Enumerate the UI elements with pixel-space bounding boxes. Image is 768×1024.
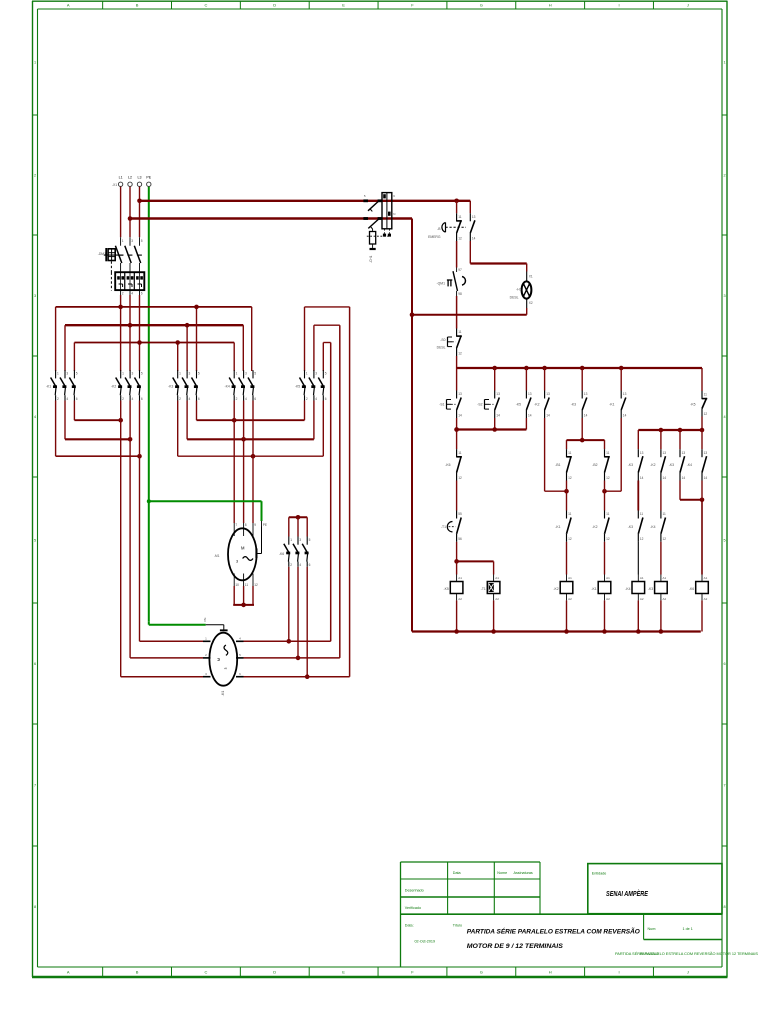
- svg-text:-K5: -K5: [444, 587, 449, 591]
- svg-text:Num:: Num:: [648, 927, 657, 931]
- svg-text:1: 1: [290, 538, 292, 542]
- coil -K5: [444, 575, 463, 601]
- svg-text:98: 98: [458, 292, 462, 296]
- thermal overload relay -FT (part of -DM1): [111, 272, 144, 295]
- svg-text:6: 6: [141, 397, 143, 401]
- svg-text:H: H: [549, 3, 552, 8]
- wire L3 drop to -DM1: [139, 187, 141, 238]
- svg-text:-K1: -K1: [609, 403, 614, 407]
- svg-text:1: 1: [306, 372, 308, 376]
- wire K4.4 to motor pin8: [243, 401, 245, 524]
- wire green PE to motor2: [148, 621, 150, 624]
- wire bus1 to K4 pin5: [251, 307, 253, 371]
- svg-text:1: 1: [122, 239, 124, 243]
- svg-text:-K3: -K3: [648, 587, 653, 591]
- wire K1.4 to K2.4: [64, 401, 66, 440]
- svg-text:11: 11: [568, 512, 572, 516]
- svg-text:55: 55: [458, 512, 462, 516]
- svg-text:Data: Data: [453, 871, 462, 875]
- svg-text:-K3: -K3: [168, 384, 173, 388]
- svg-text:A2: A2: [606, 597, 610, 601]
- svg-text:2: 2: [290, 563, 292, 567]
- wire bus1 to K1 pin1: [55, 307, 57, 371]
- svg-text:4: 4: [315, 397, 317, 401]
- svg-text:11: 11: [704, 393, 708, 397]
- wire phase bus 3: [74, 342, 234, 344]
- svg-text:-K1: -K1: [591, 587, 596, 591]
- wire K4.2 to motor pin7: [233, 401, 235, 524]
- svg-text:5: 5: [34, 539, 36, 543]
- svg-text:6: 6: [309, 563, 311, 567]
- aux contact -K6 NC 11-12: [445, 427, 462, 480]
- svg-text:13: 13: [458, 392, 462, 396]
- svg-text:1: 1: [57, 372, 59, 376]
- svg-text:E: E: [342, 3, 345, 8]
- svg-text:-K2: -K2: [592, 525, 597, 529]
- svg-text:3: 3: [189, 372, 191, 376]
- svg-text:13: 13: [682, 451, 686, 455]
- svg-text:5: 5: [325, 372, 327, 376]
- svg-text:-QM1: -QM1: [437, 282, 446, 286]
- svg-text:6: 6: [254, 397, 256, 401]
- svg-text:-M1: -M1: [221, 691, 225, 697]
- svg-text:14: 14: [472, 236, 476, 240]
- svg-text:-K3: -K3: [628, 525, 633, 529]
- svg-text:PARALELO: PARALELO: [640, 952, 659, 956]
- svg-text:12: 12: [606, 476, 610, 480]
- wire bus3 to K1 pin5: [73, 343, 75, 372]
- aux contact -K3 11-12 (row2): [628, 511, 644, 542]
- svg-text:6: 6: [76, 397, 78, 401]
- svg-text:N: N: [393, 212, 395, 216]
- svg-text:H: H: [549, 970, 552, 975]
- svg-text:13: 13: [528, 392, 532, 396]
- emergency stop NO contact 13-14: [470, 213, 475, 241]
- wire K4.6 to motor pin9: [252, 401, 254, 524]
- svg-text:4: 4: [66, 397, 68, 401]
- contactor -K1 power contacts: [46, 370, 78, 401]
- svg-text:M: M: [241, 546, 245, 551]
- wire busA drops: [456, 368, 458, 391]
- svg-text:11: 11: [606, 512, 610, 516]
- aux contact -B2 11-12: [592, 449, 610, 480]
- aux contact -K4 11-12 (row2): [650, 511, 666, 542]
- svg-text:14: 14: [623, 413, 627, 417]
- wire L2 to bus2 and K2: [129, 295, 131, 371]
- svg-text:I: I: [618, 3, 619, 8]
- node bus A junction: [524, 366, 529, 371]
- svg-text:6: 6: [141, 292, 143, 296]
- svg-text:A2: A2: [663, 597, 667, 601]
- svg-text:3: 3: [245, 372, 247, 376]
- svg-text:3: 3: [131, 239, 133, 243]
- svg-text:X1: X1: [529, 275, 533, 279]
- svg-text:7: 7: [235, 523, 237, 527]
- coil -K3: [648, 575, 667, 601]
- wire K3.2 K4.6 K5.6 link: [177, 401, 179, 457]
- svg-text:3: 3: [66, 372, 68, 376]
- wire K1aux cross link: [620, 418, 622, 491]
- svg-text:4: 4: [189, 397, 191, 401]
- wire emerg NC to QM1 aux: [456, 241, 458, 268]
- wire K5NC to right bus: [701, 417, 703, 431]
- svg-text:-K5: -K5: [690, 403, 695, 407]
- svg-text:9: 9: [254, 523, 256, 527]
- svg-text:B: B: [136, 970, 139, 975]
- wire phase bus 1: [56, 306, 252, 308]
- wire K2r to row2: [660, 481, 662, 511]
- svg-text:1: 1: [236, 372, 238, 376]
- wire L1 to bus1 and K2: [120, 295, 122, 371]
- node L3 tap: [137, 199, 142, 204]
- node control feed: [454, 199, 459, 204]
- svg-text:A: A: [67, 970, 70, 975]
- wire phase bus 2: [65, 324, 243, 326]
- svg-text:C: C: [204, 970, 207, 975]
- wire K1.2 to K2.6: [55, 401, 57, 457]
- svg-text:4: 4: [724, 415, 726, 419]
- svg-text:13: 13: [496, 392, 500, 396]
- svg-text:A1: A1: [704, 576, 708, 580]
- wire star jumper motor1: [233, 586, 235, 605]
- svg-text:14: 14: [704, 476, 708, 480]
- svg-text:PE: PE: [203, 617, 207, 621]
- svg-text:PE: PE: [146, 176, 151, 180]
- svg-text:02-Oct-2019: 02-Oct-2019: [415, 939, 436, 943]
- svg-text:2: 2: [179, 397, 181, 401]
- svg-text:14: 14: [663, 476, 667, 480]
- svg-text:A2: A2: [704, 597, 708, 601]
- aux contact -K1 13-14: [609, 391, 626, 419]
- svg-text:13: 13: [704, 451, 708, 455]
- svg-text:J: J: [687, 3, 689, 8]
- svg-text:A2: A2: [495, 597, 499, 601]
- svg-text:-K5: -K5: [295, 384, 300, 388]
- svg-text:-S0: -S0: [440, 338, 445, 342]
- svg-text:3: 3: [132, 372, 134, 376]
- coil -K6: [689, 575, 708, 601]
- svg-text:PARTIDA SÉRIE PARALELO ESTRELA: PARTIDA SÉRIE PARALELO ESTRELA COM REVER…: [615, 951, 759, 956]
- aux contact -K1 11-12 (row2): [555, 511, 572, 542]
- wire bus2 to K3 pin3: [186, 325, 188, 371]
- pushbutton -S1 NO 13-14: [439, 391, 462, 419]
- aux contact -K4 13-14: [687, 449, 708, 480]
- svg-text:11: 11: [663, 512, 667, 516]
- svg-text:14: 14: [640, 476, 644, 480]
- svg-text:D: D: [273, 3, 276, 8]
- node L2 tap: [128, 216, 133, 221]
- svg-text:J: J: [687, 970, 689, 975]
- svg-text:A2: A2: [458, 597, 462, 601]
- svg-text:8: 8: [724, 905, 726, 909]
- svg-text:A1: A1: [458, 576, 462, 580]
- node bus A junction: [492, 366, 497, 371]
- svg-text:14: 14: [584, 413, 588, 417]
- svg-text:Nome: Nome: [497, 871, 507, 875]
- svg-text:-X1: -X1: [112, 183, 117, 187]
- svg-text:12: 12: [458, 351, 462, 355]
- svg-text:-B1: -B1: [555, 463, 560, 467]
- wire lamp return to rail: [526, 308, 528, 315]
- svg-text:5: 5: [254, 372, 256, 376]
- svg-text:12: 12: [458, 476, 462, 480]
- svg-text:-K2: -K2: [534, 403, 539, 407]
- svg-text:14: 14: [458, 413, 462, 417]
- coil -K2: [553, 575, 572, 601]
- svg-text:1: 1: [724, 61, 726, 65]
- wire K3aux to U-link: [581, 418, 583, 440]
- svg-text:B: B: [136, 3, 139, 8]
- svg-text:2: 2: [306, 397, 308, 401]
- node bus A junction: [542, 366, 547, 371]
- wire K2.2 drop to motor2: [120, 401, 122, 677]
- svg-text:12: 12: [458, 236, 462, 240]
- wire K2.6 drop to motor2: [139, 401, 141, 642]
- svg-text:-T1: -T1: [441, 525, 446, 529]
- svg-text:13: 13: [640, 451, 644, 455]
- aux contact -K2 13-14: [534, 391, 550, 419]
- contactor -K3 power contacts: [168, 370, 200, 401]
- svg-text:6: 6: [198, 397, 200, 401]
- wire K6.2 drop: [288, 567, 290, 642]
- svg-text:1: 1: [122, 372, 124, 376]
- svg-text:A: A: [67, 3, 70, 8]
- aux contact -K2 11-12 (row2): [592, 511, 610, 542]
- coil -T1 timer: [481, 575, 500, 601]
- wire right bus drops row1: [637, 430, 639, 449]
- svg-text:3: 3: [315, 372, 317, 376]
- wire right feed bus: [638, 429, 702, 431]
- wire L2 drop to -DM1: [129, 187, 131, 238]
- node bus A junction: [619, 366, 624, 371]
- wire U-link B1 B2: [567, 439, 605, 441]
- svg-text:5: 5: [141, 372, 143, 376]
- wire L3 to bus3 and K2: [139, 295, 141, 371]
- svg-text:G: G: [480, 970, 483, 975]
- svg-text:-K6: -K6: [689, 587, 694, 591]
- aux contact -K3b 13-14: [669, 449, 686, 480]
- wire motor2 left pin3: [121, 676, 203, 678]
- svg-text:-K3: -K3: [628, 463, 633, 467]
- svg-text:12: 12: [254, 583, 258, 587]
- wire K3.4 K4.4 K5.4 link: [186, 401, 188, 440]
- node bus A junction: [580, 366, 585, 371]
- svg-text:11: 11: [458, 330, 462, 334]
- svg-text:2: 2: [122, 292, 124, 296]
- wire emerg NO to lamp: [469, 241, 471, 264]
- svg-text:4: 4: [34, 415, 36, 419]
- svg-text:5: 5: [309, 538, 311, 542]
- wire K5 pin3 loop: [313, 325, 315, 371]
- wire coils to bottom bus: [456, 600, 458, 631]
- svg-text:1 de 1: 1 de 1: [683, 927, 693, 931]
- svg-text:MOTOR DE 9 / 12 TERMINAIS: MOTOR DE 9 / 12 TERMINAIS: [467, 943, 563, 950]
- svg-text:14: 14: [546, 413, 550, 417]
- svg-text:13: 13: [584, 392, 588, 396]
- svg-text:14: 14: [496, 413, 500, 417]
- svg-text:Desenhado: Desenhado: [405, 889, 424, 893]
- svg-text:2: 2: [34, 174, 36, 178]
- svg-text:2: 2: [122, 397, 124, 401]
- svg-text:11: 11: [568, 451, 572, 455]
- wire bus1 to K3 pin5: [196, 307, 198, 371]
- emergency mushroom actuator: [428, 223, 466, 239]
- wire bus A to K5 NC: [701, 368, 703, 391]
- wire K1.6 to K2.2: [73, 401, 75, 421]
- svg-text:-B2: -B2: [592, 463, 597, 467]
- svg-text:4: 4: [131, 292, 133, 296]
- wire L2 control feed bus: [130, 217, 412, 219]
- svg-text:G: G: [480, 3, 483, 8]
- svg-text:-K2: -K2: [111, 384, 116, 388]
- svg-text:12: 12: [640, 537, 644, 541]
- svg-text:Data:: Data:: [405, 923, 414, 927]
- svg-text:-K3: -K3: [669, 463, 674, 467]
- svg-text:D: D: [273, 970, 276, 975]
- wire control bottom bus: [412, 630, 701, 632]
- aux contact -B1 11-12: [555, 449, 572, 480]
- svg-text:-H1: -H1: [516, 288, 522, 292]
- svg-text:Título: Título: [453, 923, 462, 927]
- wire K6.6 drop: [306, 567, 308, 677]
- svg-text:8: 8: [34, 905, 36, 909]
- svg-text:13: 13: [472, 215, 476, 219]
- svg-text:11: 11: [606, 451, 610, 455]
- svg-text:5: 5: [141, 239, 143, 243]
- svg-text:-K5: -K5: [516, 403, 521, 407]
- svg-text:SENAI AMPÈRE: SENAI AMPÈRE: [606, 889, 648, 898]
- aux contact -K5 13-14: [516, 391, 532, 419]
- wire K2.4 drop to motor2: [129, 401, 131, 658]
- wire bus2 to K1 pin3: [64, 325, 66, 371]
- overload aux -QM1 contact 97-98: [437, 268, 466, 297]
- wire K3r to row2: [637, 481, 639, 511]
- svg-text:A1: A1: [663, 576, 667, 580]
- svg-text:56: 56: [458, 537, 462, 541]
- wire bus2 to K4 pin3: [242, 325, 244, 371]
- title block: [401, 862, 723, 967]
- circuit breaker -DM1: [98, 237, 143, 272]
- svg-text:12: 12: [704, 412, 708, 416]
- aux contact -K3 13-14 (right): [628, 449, 644, 480]
- contactor -K6 power contacts: [279, 537, 311, 568]
- aux contact -K2 13-14 (right): [650, 449, 666, 480]
- wire QM1 to S0: [456, 296, 458, 329]
- motor -M1 winding set (lower, pins 1-6): [203, 617, 244, 696]
- svg-text:Verificado: Verificado: [405, 906, 421, 910]
- svg-text:7: 7: [724, 784, 726, 788]
- timer contact -T1 55-56: [441, 481, 462, 542]
- svg-text:12: 12: [663, 537, 667, 541]
- svg-text:5: 5: [76, 372, 78, 376]
- svg-text:4: 4: [299, 563, 301, 567]
- svg-text:C: C: [204, 3, 207, 8]
- wire K6 star bar: [289, 516, 307, 518]
- svg-text:2: 2: [57, 397, 59, 401]
- contactor -K5 power contacts: [295, 370, 327, 401]
- svg-text:A1: A1: [495, 576, 499, 580]
- wire S0 to bus A: [456, 356, 458, 368]
- svg-text:-K4: -K4: [650, 525, 655, 529]
- wire K5 pin5 loop: [322, 343, 324, 372]
- wire K5 pin1 loop: [304, 307, 306, 371]
- coil -K4: [625, 575, 644, 601]
- svg-text:-K3: -K3: [571, 403, 576, 407]
- svg-text:6: 6: [325, 397, 327, 401]
- svg-text:4: 4: [245, 397, 247, 401]
- wire motor2 right pin4: [244, 640, 331, 642]
- svg-text:-K6: -K6: [445, 463, 450, 467]
- emergency stop -B EMERG NC contact 11-12: [456, 213, 462, 241]
- svg-text:14: 14: [682, 476, 686, 480]
- wire motor2 right pin6: [244, 676, 350, 678]
- pushbutton -S2 NO 13-14: [477, 391, 500, 419]
- svg-text:97: 97: [458, 268, 462, 272]
- svg-text:10: 10: [235, 583, 239, 587]
- svg-text:2: 2: [724, 174, 726, 178]
- wire L1 drop to -DM1: [120, 187, 122, 238]
- svg-text:3: 3: [34, 294, 36, 298]
- wire motor2 right pin5: [244, 657, 340, 659]
- svg-text:DESL: DESL: [437, 346, 446, 350]
- aux contact -K3 13-14: [571, 391, 588, 419]
- svg-text:M: M: [217, 658, 221, 661]
- svg-text:13: 13: [546, 392, 550, 396]
- svg-text:Assinaturas: Assinaturas: [514, 871, 533, 875]
- terminal strip -X1 L1 L2 L3 PE: [112, 176, 152, 188]
- svg-text:8: 8: [245, 523, 247, 527]
- svg-text:-CH1: -CH1: [369, 255, 373, 263]
- svg-text:-K1: -K1: [555, 525, 560, 529]
- svg-text:A2: A2: [640, 597, 644, 601]
- svg-text:11: 11: [245, 583, 249, 587]
- svg-text:A1: A1: [606, 576, 610, 580]
- wire bus3 to K4 pin1: [233, 343, 235, 372]
- wire B1 to row2: [566, 481, 568, 511]
- svg-text:A2: A2: [568, 597, 572, 601]
- svg-text:DESL: DESL: [510, 295, 519, 299]
- wire K3.6 K4.2 K5.2 link: [196, 401, 198, 421]
- wire seal bus B: [456, 418, 458, 430]
- svg-text:14: 14: [528, 413, 532, 417]
- wire K2aux cross link: [544, 418, 546, 491]
- lamp -H1 DESL: [510, 272, 533, 309]
- svg-text:EMERG: EMERG: [428, 235, 441, 239]
- svg-text:11: 11: [640, 512, 644, 516]
- wire K6.4 drop: [297, 567, 299, 658]
- wire L3 control feed bus: [140, 200, 471, 202]
- wire row2 to coils: [566, 542, 568, 575]
- svg-text:7: 7: [34, 784, 36, 788]
- svg-text:-K1: -K1: [46, 384, 51, 388]
- wire control bus A: [457, 367, 702, 369]
- svg-text:A1: A1: [568, 576, 572, 580]
- svg-text:1: 1: [179, 372, 181, 376]
- svg-text:-K2: -K2: [650, 463, 655, 467]
- svg-text:I: I: [618, 970, 619, 975]
- contactor -K2 power contacts: [111, 370, 143, 401]
- svg-text:PARTIDA SÉRIE PARALELO ESTRELA: PARTIDA SÉRIE PARALELO ESTRELA COM REVER…: [467, 927, 641, 936]
- aux contact -K5 NC 11-12: [690, 391, 707, 417]
- pushbutton -S0 DESL NC 11-12: [437, 329, 462, 357]
- svg-text:11: 11: [458, 215, 462, 219]
- svg-text:-K4: -K4: [625, 587, 630, 591]
- svg-text:-K4: -K4: [225, 384, 230, 388]
- svg-text:-K2: -K2: [553, 587, 558, 591]
- wire B2 to row2: [604, 481, 606, 511]
- svg-text:PE: PE: [263, 523, 267, 527]
- svg-text:X2: X2: [529, 301, 533, 305]
